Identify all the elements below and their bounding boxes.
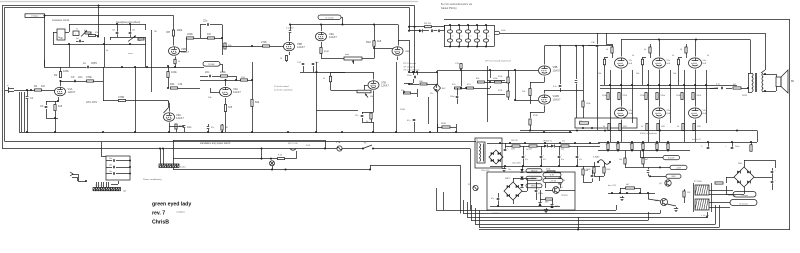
wire filter rail bot bbox=[444, 46, 494, 48]
label hf section bbox=[76, 29, 78, 31]
wire cathode net bbox=[46, 100, 59, 102]
wire col side R 1 bbox=[632, 70, 634, 120]
bridge BR1 bbox=[504, 178, 522, 200]
svg-text:r17 12 hyper: r17 12 hyper bbox=[403, 65, 415, 68]
svg-text:22k: 22k bbox=[562, 141, 565, 143]
svg-text:1k5: 1k5 bbox=[228, 105, 233, 109]
ground GND ht bbox=[502, 167, 506, 172]
capacitor C filter b bbox=[483, 33, 488, 47]
label ht d bbox=[543, 141, 552, 143]
svg-text:1 2 3 4 5 6: 1 2 3 4 5 6 bbox=[95, 185, 104, 187]
wire V7 plate bbox=[331, 72, 374, 80]
resistor R7 bbox=[138, 38, 144, 40]
wire screen feed bbox=[500, 33, 516, 35]
wire V4 plate bbox=[225, 79, 227, 86]
svg-text:47u: 47u bbox=[525, 159, 528, 161]
wire sense gnd bbox=[617, 150, 619, 152]
node bias tap bbox=[647, 192, 649, 194]
resistor R18 bbox=[207, 32, 215, 39]
wire mid bus bbox=[200, 76, 252, 81]
pill D20 label bbox=[526, 169, 542, 173]
svg-text:220n 400V: 220n 400V bbox=[86, 102, 98, 104]
svg-text:100u: 100u bbox=[735, 146, 739, 148]
node ground bus junction bbox=[341, 131, 343, 133]
svg-text:10: 10 bbox=[606, 144, 608, 146]
capacitor C21 bbox=[588, 42, 598, 47]
resistor R grid 2 bbox=[641, 57, 646, 85]
label grid r5 bbox=[673, 73, 676, 75]
wire ltp riser bbox=[398, 40, 410, 73]
svg-text:r19 12 anchorage: r19 12 anchorage bbox=[403, 69, 420, 72]
wire ltp bottom bbox=[437, 124, 457, 132]
resistor R grid 3 bbox=[677, 57, 682, 85]
resistor R2 100k bbox=[54, 69, 69, 78]
label tb2 tiny bbox=[95, 185, 104, 187]
wire ltp riser2 bbox=[413, 26, 415, 73]
capacitor C filter b bbox=[465, 33, 470, 47]
wire aux drop bbox=[428, 97, 430, 124]
wire nest line 5 bbox=[475, 205, 716, 225]
ground GND bias bbox=[620, 196, 624, 201]
node ground bus junction bbox=[395, 131, 397, 133]
wire br3 gnd bbox=[726, 186, 744, 195]
capacitor C14 bbox=[312, 62, 320, 65]
capacitor C35 bbox=[207, 124, 214, 132]
svg-text:R25 12k: R25 12k bbox=[424, 23, 431, 25]
wire plate drop 3 bbox=[695, 40, 697, 57]
node ht tap bbox=[499, 142, 501, 144]
wire tube link 1 bbox=[621, 70, 623, 107]
resistor R8 plate load bbox=[167, 28, 183, 36]
node bias node 1 bbox=[609, 84, 633, 86]
wire V1 plate node bbox=[60, 80, 99, 82]
label power conditioning bbox=[143, 178, 162, 181]
svg-text:1u: 1u bbox=[488, 36, 490, 38]
resistor R3 1k5 bbox=[54, 101, 63, 118]
label filter val bbox=[452, 36, 454, 38]
wire ht chain bbox=[505, 146, 600, 148]
capacitor C filter a bbox=[474, 24, 479, 33]
wire long riser bbox=[135, 67, 137, 132]
wire V3 plate bbox=[168, 101, 170, 112]
wire sense gnd bbox=[631, 150, 633, 152]
transformer OT1 secondary bbox=[762, 73, 763, 92]
label ltp note a bbox=[403, 62, 416, 65]
resistor R cath V2 bbox=[174, 59, 180, 64]
svg-text:1k: 1k bbox=[632, 55, 634, 57]
svg-text:5k: 5k bbox=[58, 37, 60, 39]
diode D30 bbox=[538, 203, 541, 207]
node bias node 3 bbox=[683, 84, 707, 86]
svg-text:0.1u: 0.1u bbox=[716, 84, 720, 86]
wire ht rail top bbox=[487, 143, 600, 145]
wire col side R 3 bbox=[706, 70, 708, 120]
svg-text:1M: 1M bbox=[207, 32, 211, 36]
resistor R screen 1 bbox=[606, 44, 613, 58]
svg-text:10R: 10R bbox=[661, 126, 665, 128]
wire coup run1 bbox=[575, 46, 578, 118]
wire tone mid drop bbox=[104, 37, 106, 44]
wire grid stopper drop bbox=[27, 90, 29, 96]
capacitor C31 bbox=[771, 180, 777, 183]
node ht tap bbox=[559, 142, 561, 144]
resistor R14 bbox=[241, 77, 248, 81]
node ht bot tap bbox=[522, 165, 524, 167]
node bias node 2 bbox=[647, 84, 671, 86]
wire OT sec bot bbox=[763, 90, 776, 92]
wire top scan artifact bbox=[0, 1, 418, 3]
node V5 grid node bbox=[251, 45, 253, 47]
svg-text:10n: 10n bbox=[109, 171, 112, 173]
svg-text:100k: 100k bbox=[177, 28, 183, 32]
node ht bot tap bbox=[504, 165, 506, 167]
wire vertical from top bus bbox=[97, 6, 99, 38]
wire ht bottom bbox=[490, 166, 600, 168]
svg-text:100k: 100k bbox=[171, 70, 177, 74]
wire reverb top link bbox=[341, 17, 344, 25]
svg-text:KBPC: KBPC bbox=[505, 178, 511, 180]
label filter val bbox=[461, 36, 463, 38]
wire grid bus 1 bbox=[600, 85, 737, 87]
wire riser bbox=[103, 67, 105, 101]
node ground bus junction bbox=[221, 131, 223, 133]
capacitor C23 100u bbox=[725, 141, 739, 149]
diode D31 zener bbox=[550, 205, 558, 209]
wire splitter riser bbox=[514, 70, 538, 101]
resistor R37 bbox=[529, 119, 531, 132]
wire br3 wires bbox=[726, 168, 773, 194]
capacitor C32 bbox=[109, 158, 131, 162]
wire nest line 6 bbox=[479, 205, 720, 228]
svg-text:22u: 22u bbox=[187, 125, 192, 129]
svg-text:Q4: Q4 bbox=[659, 183, 662, 185]
wire col side L 1 bbox=[610, 70, 612, 120]
svg-text:R8: R8 bbox=[167, 30, 171, 34]
node ground bus junction bbox=[287, 131, 289, 133]
capacitor C20 bbox=[450, 88, 458, 104]
wire drive top bbox=[437, 69, 538, 71]
capacitor C4 bbox=[83, 61, 97, 68]
wire R8 to rail bbox=[173, 16, 175, 31]
svg-text:100R: 100R bbox=[606, 169, 611, 171]
wire bias wires bbox=[648, 189, 685, 206]
svg-text:xover: xover bbox=[128, 53, 133, 55]
svg-text:100R: 100R bbox=[586, 169, 591, 171]
current source CCS diamond bbox=[434, 84, 447, 92]
tube V out bot 3 bbox=[689, 108, 708, 118]
wire strip drop 2 bbox=[163, 149, 165, 165]
svg-text:150R: 150R bbox=[400, 109, 405, 111]
wire shield drop 2 bbox=[21, 92, 23, 132]
wire V2 cathode bbox=[175, 57, 177, 60]
capacitor C3 coupling bbox=[71, 75, 83, 82]
wire reverb link bbox=[220, 64, 223, 72]
wire tone top rail bbox=[69, 23, 146, 25]
wire snubber feed bbox=[101, 142, 106, 157]
svg-text:to reverb: to reverb bbox=[325, 16, 334, 19]
label choke bbox=[526, 149, 529, 151]
svg-text:NTC CL-90: NTC CL-90 bbox=[288, 143, 298, 145]
resistor R7h bbox=[89, 32, 99, 37]
node cath node bbox=[617, 141, 619, 143]
wire filter right bbox=[494, 25, 496, 47]
resistor R6 bbox=[84, 30, 91, 34]
resistor R25 bbox=[409, 23, 445, 28]
wire pot feed bbox=[331, 72, 358, 91]
svg-text:1M: 1M bbox=[225, 127, 228, 129]
resistor R45 bbox=[561, 145, 569, 151]
wire V5 cathode bbox=[280, 52, 290, 62]
svg-text:10R: 10R bbox=[697, 126, 701, 128]
wire cath drop 1 bbox=[611, 120, 633, 143]
wire col side L 2 bbox=[648, 70, 650, 120]
capacitor C11 bbox=[203, 19, 209, 26]
potentiometer VR4 level bbox=[344, 54, 374, 64]
wire V4 cathode bbox=[225, 98, 227, 104]
capacitor C ht bbox=[540, 146, 546, 166]
svg-text:10: 10 bbox=[655, 144, 657, 146]
node drv node bbox=[460, 87, 467, 89]
wire NFB line bbox=[600, 130, 757, 132]
resistor R cath 2b bbox=[657, 124, 665, 131]
svg-text:12AX7: 12AX7 bbox=[381, 84, 389, 88]
resistor R sense bbox=[616, 144, 620, 150]
label ht r2 bbox=[562, 141, 565, 143]
resistor R34b 470k bbox=[498, 90, 509, 97]
svg-text:10k: 10k bbox=[636, 73, 639, 75]
wire cath drop 2 bbox=[649, 120, 671, 143]
wire lamp rail bbox=[173, 158, 297, 160]
svg-text:1k: 1k bbox=[677, 126, 679, 128]
node ht tap bbox=[574, 142, 576, 144]
capacitor C27 bbox=[591, 170, 596, 177]
bridge BR2 bbox=[489, 150, 503, 164]
node ground bus junction bbox=[543, 131, 545, 133]
resistor R screen 3 bbox=[680, 44, 687, 58]
speaker LS1 bbox=[776, 70, 788, 93]
wire stage bus bbox=[200, 38, 222, 40]
wire stage riser bbox=[152, 30, 158, 92]
node ht tap bbox=[589, 142, 591, 144]
wire mains run bbox=[160, 148, 337, 150]
wire R10 feed bbox=[167, 65, 169, 86]
resistor R33b 470k bbox=[498, 76, 509, 83]
wire nest drop bbox=[578, 217, 580, 230]
wire pill lead2 bbox=[648, 166, 670, 168]
label spk wire bbox=[742, 95, 748, 97]
terminal strip TB1 bbox=[159, 164, 186, 169]
wire dropper gnd bbox=[252, 107, 254, 133]
plug mains N bbox=[730, 200, 757, 206]
wire tone right bbox=[145, 24, 147, 44]
wire V6 plate bbox=[320, 24, 322, 32]
svg-text:12AX7: 12AX7 bbox=[68, 90, 76, 94]
svg-text:10n: 10n bbox=[508, 169, 511, 171]
wire C1 to ground bbox=[27, 99, 29, 132]
node top bus junction bbox=[98, 5, 100, 7]
resistor R38 22k bbox=[579, 121, 589, 124]
node ground bus junction bbox=[569, 131, 571, 133]
svg-text:R2: R2 bbox=[54, 73, 58, 77]
transformer PT secondary bbox=[695, 199, 709, 210]
capacitor C37 bbox=[439, 25, 445, 32]
wire V4 grid bbox=[210, 88, 220, 93]
svg-text:470k: 470k bbox=[498, 76, 502, 78]
diode D1 feed bbox=[409, 29, 429, 32]
svg-text:N neutral: N neutral bbox=[739, 202, 748, 205]
capacitor C16 220n bbox=[407, 72, 418, 78]
resistor R40 bbox=[733, 84, 741, 89]
svg-text:2x 22VAC: 2x 22VAC bbox=[728, 194, 737, 197]
transformer OT1 primary bbox=[752, 73, 753, 92]
transformer PT frame bbox=[694, 183, 712, 212]
wire ref input feed bbox=[45, 16, 174, 67]
wire nest v b bbox=[443, 192, 445, 210]
svg-text:47u: 47u bbox=[561, 159, 564, 161]
tube V5 12AX7 bbox=[284, 42, 306, 51]
wire V3 grid bbox=[164, 101, 169, 114]
node bias tap bbox=[626, 192, 628, 194]
capacitor C2 22u bbox=[40, 101, 47, 118]
resistor R43 bbox=[511, 145, 520, 151]
capacitor C filter b bbox=[474, 33, 479, 47]
wire R22 riser bbox=[373, 24, 375, 59]
wire V5 plate bbox=[289, 33, 291, 41]
svg-text:250-0-250: 250-0-250 bbox=[481, 170, 489, 172]
resistor R36 bbox=[522, 89, 538, 118]
capacitor C ht bbox=[522, 146, 528, 166]
transistor Q3 bbox=[655, 199, 668, 206]
svg-text:12AX7: 12AX7 bbox=[181, 50, 189, 54]
wire V5 to rail bbox=[289, 24, 291, 31]
resistor R50 bbox=[642, 158, 648, 164]
wire V1 cathode bbox=[58, 97, 60, 101]
wire second border left bbox=[4, 7, 6, 141]
node bias tap bbox=[639, 192, 641, 194]
label ltp note main bbox=[485, 60, 512, 63]
resistor R sense bbox=[666, 144, 670, 150]
svg-text:220k: 220k bbox=[697, 95, 701, 97]
svg-text:100k: 100k bbox=[501, 30, 505, 32]
pill 6.3V a bbox=[543, 173, 561, 177]
svg-text:220k: 220k bbox=[220, 70, 226, 74]
wire V3 plate net bbox=[167, 86, 200, 89]
svg-text:470k: 470k bbox=[86, 75, 92, 79]
svg-text:10k: 10k bbox=[598, 73, 601, 75]
wire shield drop 1 bbox=[19, 92, 21, 132]
resistor R cath 1a bbox=[603, 124, 610, 131]
svg-text:rev. 7: rev. 7 bbox=[152, 211, 165, 217]
wire out node bbox=[710, 87, 732, 90]
wire screen rail bbox=[516, 33, 765, 35]
pill D22 label bbox=[526, 184, 542, 188]
label title bbox=[152, 202, 191, 208]
node lamp tap bbox=[261, 148, 263, 150]
label psu note2 bbox=[441, 7, 457, 10]
node ht tap bbox=[524, 142, 526, 144]
tube V8 bbox=[392, 47, 410, 56]
pill to reverb low bbox=[203, 62, 220, 67]
wire grid bus 2 bbox=[600, 88, 718, 90]
svg-text:LTP 12 crossed matrix 121: LTP 12 crossed matrix 121 bbox=[485, 60, 512, 63]
label note line2 bbox=[274, 89, 293, 92]
svg-text:TIP3055: TIP3055 bbox=[561, 195, 568, 197]
capacitor C29 47u bbox=[491, 193, 499, 206]
svg-text:150k: 150k bbox=[586, 103, 590, 105]
node ht bot tap bbox=[576, 165, 578, 167]
svg-text:12 to the stand: 12 to the stand bbox=[274, 85, 289, 88]
capacitor C22 bbox=[701, 141, 709, 149]
diode D20 stack bbox=[520, 166, 523, 173]
label rev bbox=[152, 211, 165, 217]
resistor R39 bbox=[750, 141, 752, 151]
svg-text:L: L bbox=[76, 33, 77, 35]
label ht c row bbox=[512, 163, 521, 165]
capacitor C24 out bbox=[716, 84, 723, 90]
resistor R27 bbox=[419, 81, 427, 85]
wire cath drop 3 bbox=[685, 120, 707, 143]
node ground bus junction bbox=[251, 131, 253, 133]
resistor R bias 1a bbox=[602, 93, 609, 100]
label c10n bbox=[508, 169, 511, 171]
wire V10 plate bbox=[545, 90, 584, 94]
node bias tap bbox=[611, 192, 613, 194]
resistor R sense bbox=[606, 144, 610, 150]
tube V out top 2 bbox=[653, 58, 672, 68]
svg-text:PT 230V: PT 230V bbox=[694, 181, 702, 183]
wire spl bus bbox=[520, 130, 600, 132]
svg-text:R 10: R 10 bbox=[306, 145, 310, 147]
box grid rect bbox=[575, 118, 637, 128]
box ref input label bbox=[25, 14, 45, 18]
wire V4 cath gnd bbox=[225, 112, 227, 133]
capacitor C ht bbox=[576, 146, 582, 166]
box heater outline bbox=[487, 172, 575, 210]
capacitor C7 bbox=[112, 24, 118, 37]
svg-text:B+405V: B+405V bbox=[668, 158, 675, 160]
resistor R10 bbox=[167, 70, 177, 78]
svg-text:10: 10 bbox=[630, 144, 632, 146]
svg-text:1k: 1k bbox=[280, 58, 282, 60]
wire V5 grid2 bbox=[270, 46, 284, 48]
svg-text:10n: 10n bbox=[109, 165, 112, 167]
node ground bus junction bbox=[54, 131, 56, 133]
svg-text:in: in bbox=[7, 85, 8, 87]
wire bias rail bbox=[608, 193, 655, 195]
wire V6 cath low bbox=[321, 54, 344, 59]
wire to OT bbox=[741, 73, 749, 92]
node ground bus junction bbox=[455, 131, 457, 133]
wire V2 out bbox=[180, 38, 201, 52]
svg-text:47n: 47n bbox=[211, 127, 214, 129]
resistor R46 bbox=[546, 169, 555, 174]
wire pill1 feed bbox=[640, 151, 663, 158]
wire tube link 3 bbox=[695, 70, 697, 107]
svg-text:50k: 50k bbox=[370, 96, 373, 98]
node ht tap bbox=[544, 142, 546, 144]
svg-text:Power conditioning: Power conditioning bbox=[143, 178, 162, 181]
node grid rect nodes bbox=[582, 127, 593, 129]
wire V2 plate bbox=[173, 36, 175, 46]
svg-text:1k: 1k bbox=[603, 126, 605, 128]
wire col side L 3 bbox=[684, 70, 686, 120]
tube V out bot 1 bbox=[615, 108, 634, 118]
wire v7 bottom bbox=[317, 110, 374, 132]
svg-text:0R5: 0R5 bbox=[545, 202, 548, 204]
capacitor C33 bbox=[109, 165, 131, 169]
pill B 403V bbox=[666, 174, 681, 178]
label output txt bbox=[692, 138, 702, 141]
